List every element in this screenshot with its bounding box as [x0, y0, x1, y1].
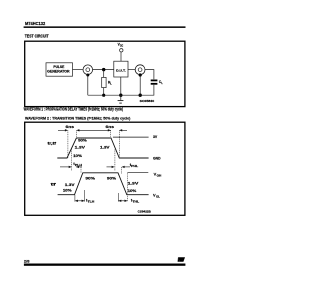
- svg-text:CS8422B: CS8422B: [138, 209, 151, 213]
- svg-text:D.U.T.: D.U.T.: [116, 69, 126, 73]
- svg-text:90%: 90%: [78, 139, 87, 143]
- wire CL to ground rail: [88, 85, 154, 95]
- output waveform trace: [58, 173, 149, 195]
- Vcc label: [118, 42, 124, 47]
- tr arrow left: [58, 129, 68, 131]
- svg-text:90%: 90%: [85, 176, 95, 180]
- svg-text:1.3V: 1.3V: [100, 146, 110, 150]
- footer rule: [24, 264, 186, 266]
- junction dot below input connector: [86, 74, 89, 77]
- tTHL label: [131, 197, 140, 203]
- svg-text:WAVEFORM 2 : TRANSITION TIMES: WAVEFORM 2 : TRANSITION TIMES (f=1MHz; 5…: [25, 116, 131, 121]
- VOH riser dashed line: [127, 173, 129, 202]
- DUT U1: [114, 61, 128, 77]
- svg-text:PLH: PLH: [75, 163, 82, 167]
- tTLH label: [86, 197, 94, 203]
- tPHL label: [130, 162, 139, 168]
- resistor RL: [102, 77, 113, 87]
- svg-text:GND: GND: [153, 157, 161, 161]
- wire output connector down to ground rail: [139, 75, 141, 96]
- tTHL measure line left: [117, 193, 119, 202]
- output connector J2: [135, 65, 145, 75]
- tf measure dashed line right: [118, 130, 120, 158]
- svg-text:2/8: 2/8: [24, 259, 30, 264]
- wire DUT down to ground rail: [120, 77, 122, 95]
- wire output connector to CL branch: [145, 70, 154, 80]
- svg-text:WAVEFORM 1 : PROPAGATION DELAY: WAVEFORM 1 : PROPAGATION DELAY TIMES (f=…: [24, 106, 124, 111]
- tf arrow left: [108, 129, 111, 131]
- junction DUT-rail: [119, 94, 122, 97]
- svg-text:1.3V: 1.3V: [65, 183, 75, 187]
- svg-text:90%: 90%: [107, 176, 117, 180]
- svg-text:M74HC132: M74HC132: [25, 21, 46, 26]
- svg-text:THL: THL: [132, 200, 139, 204]
- svg-text:10%: 10%: [128, 189, 137, 193]
- svg-text:PHL: PHL: [131, 164, 138, 168]
- tPLH arrow: [60, 166, 82, 168]
- VOH label: [154, 172, 162, 178]
- svg-text:SC05840: SC05840: [140, 99, 155, 103]
- tTLH measure line right: [84, 190, 86, 202]
- tTHL arrows: [118, 200, 127, 202]
- input connector J1: [83, 65, 93, 75]
- tPHL arrow right: [122, 166, 130, 168]
- ST logo: [178, 257, 186, 262]
- svg-text:OL: OL: [156, 195, 160, 199]
- junction dot below output connector: [139, 73, 142, 76]
- svg-text:TLH: TLH: [88, 200, 95, 204]
- svg-text:1.3V: 1.3V: [75, 146, 86, 150]
- capacitor CL: [151, 80, 164, 85]
- tPLH label: [73, 161, 82, 167]
- wire input connector down to ground rail: [87, 75, 89, 96]
- wire input connector to node A: [93, 69, 114, 71]
- svg-text:1.3V: 1.3V: [128, 182, 139, 186]
- svg-text:CC: CC: [120, 45, 124, 47]
- svg-text:OH: OH: [157, 174, 162, 178]
- wire Vcc to DUT: [120, 52, 122, 61]
- tr arrow right: [76, 129, 111, 131]
- wire DUT output to output connector: [128, 69, 135, 71]
- figure 1 frame: [25, 41, 185, 106]
- tPHL arrow left: [107, 166, 115, 168]
- tr measure dashed line left: [67, 130, 69, 158]
- figure 2 frame: [25, 122, 185, 215]
- svg-text:GENERATOR: GENERATOR: [47, 69, 70, 73]
- input waveform trace: [57, 138, 148, 158]
- wire pulse generator to input connector: [73, 69, 83, 71]
- tTLH arrows: [75, 200, 85, 202]
- Vcc terminal: [120, 49, 123, 52]
- tTLH measure line left: [74, 195, 76, 202]
- wire node A down to RL: [103, 70, 105, 78]
- tPHL dashed line input crossing: [114, 150, 116, 172]
- svg-text:3V: 3V: [153, 135, 158, 139]
- tf measure dashed line left: [110, 130, 112, 138]
- svg-text:6ns: 6ns: [66, 124, 75, 129]
- junction RL-rail: [102, 94, 105, 97]
- svg-text:TEST CIRCUIT: TEST CIRCUIT: [25, 34, 49, 39]
- VOL label: [153, 192, 160, 198]
- part number header: [25, 21, 46, 26]
- header rule: [24, 26, 186, 28]
- tPHL dashed line output crossing: [121, 167, 123, 174]
- tPLH dashed line output crossing: [80, 167, 82, 173]
- svg-text:6ns: 6ns: [106, 124, 115, 129]
- pulse generator PG: [46, 63, 73, 76]
- 3V reference line: [113, 136, 149, 138]
- junction output-rail: [139, 94, 142, 97]
- svg-text:10%: 10%: [73, 154, 83, 158]
- node A junction: [102, 68, 105, 71]
- tPLH dashed line input crossing: [71, 150, 73, 172]
- svg-text:10%: 10%: [63, 189, 72, 193]
- VOH reference line: [128, 172, 149, 174]
- wire RL to ground rail: [103, 88, 105, 96]
- svg-text:tr,tf: tr,tf: [48, 141, 58, 145]
- tr measure dashed line right: [76, 130, 78, 138]
- ground symbol: [118, 95, 124, 103]
- tf arrow right: [119, 129, 127, 131]
